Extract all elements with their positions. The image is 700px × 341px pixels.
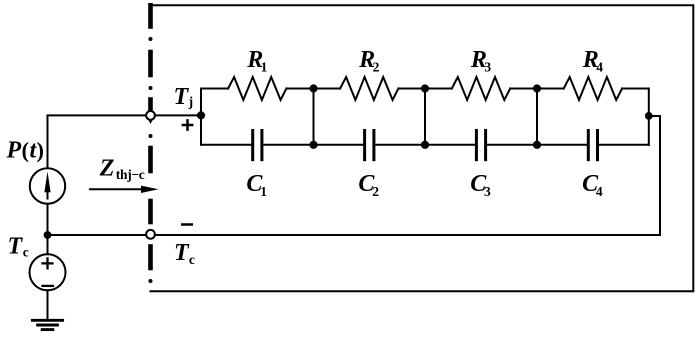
capacitor C4 <box>537 144 587 146</box>
node Tj: filled junction dot <box>197 111 205 119</box>
arrow for Z_thj-c direction <box>89 188 146 190</box>
terminal Tc (open circle on case boundary) <box>146 230 155 239</box>
svg-text:2: 2 <box>372 184 379 199</box>
svg-text:P: P <box>6 138 22 164</box>
svg-text:Z: Z <box>99 156 115 182</box>
terminal Tj (open circle on case boundary) <box>146 111 155 120</box>
svg-text:3: 3 <box>484 59 491 74</box>
svg-text:c: c <box>189 252 195 267</box>
node: junction dot bottom rail stage 1/2 <box>309 141 317 149</box>
svg-text:2: 2 <box>373 59 380 74</box>
svg-text:): ) <box>37 138 45 163</box>
capacitor C3 <box>425 144 475 146</box>
svg-text:T: T <box>174 84 190 110</box>
node: junction dot top rail stage 1/2 <box>309 84 317 92</box>
polarity + at Tj <box>182 119 194 131</box>
resistor R1 <box>201 88 228 90</box>
case outline: solid top/right/bottom border of package box <box>151 5 694 291</box>
svg-text:T: T <box>8 234 24 260</box>
node: junction dot at Tc rail / source column <box>44 231 52 239</box>
svg-text:(: ( <box>22 138 30 163</box>
voltage source Tc (case temperature) <box>47 235 49 254</box>
current source P(t) <box>30 168 65 203</box>
wire: inter-stage vertical at junction 2 <box>424 89 426 145</box>
wire: current source bottom to node Tc <box>47 204 49 235</box>
wire: left ladder vertical (Tj node to top and bottom rails) <box>200 89 202 145</box>
wire: Tj lead from current source top to terminal Tj <box>48 115 147 168</box>
node: junction dot top rail stage 3/4 <box>533 84 541 92</box>
node: junction dot bottom rail stage 2/3 <box>421 141 429 149</box>
wire: return path from output node down and back to terminal Tc <box>155 116 660 235</box>
svg-text:thj−c: thj−c <box>116 167 145 182</box>
node: junction dot top rail stage 2/3 <box>421 84 429 92</box>
svg-text:c: c <box>23 245 29 260</box>
ground <box>32 320 62 329</box>
svg-text:1: 1 <box>260 184 267 199</box>
wire: voltage source to ground <box>47 290 49 320</box>
svg-text:j: j <box>188 94 194 109</box>
polarity − at Tc <box>181 223 193 226</box>
resistor R4 <box>537 88 564 90</box>
wire: Tc rail from node to terminal Tc <box>48 234 147 236</box>
resistor R3 <box>425 88 452 90</box>
node: junction dot bottom rail stage 3/4 <box>533 141 541 149</box>
capacitor C2 <box>314 144 364 146</box>
node: right output junction dot <box>645 112 653 120</box>
svg-text:3: 3 <box>484 184 491 199</box>
wire: right ladder vertical joining rails <box>648 89 650 145</box>
capacitor C1 <box>201 144 251 146</box>
case outline left edge: dash-dot line <box>148 5 153 268</box>
wire: terminal Tj to node Tj <box>155 114 201 116</box>
wire: inter-stage vertical at junction 3 <box>536 89 538 145</box>
svg-text:1: 1 <box>261 59 268 74</box>
svg-text:T: T <box>174 240 190 266</box>
svg-text:4: 4 <box>596 59 603 74</box>
wire: inter-stage vertical at junction 1 <box>313 89 315 145</box>
resistor R2 <box>314 88 341 90</box>
svg-text:4: 4 <box>596 184 603 199</box>
